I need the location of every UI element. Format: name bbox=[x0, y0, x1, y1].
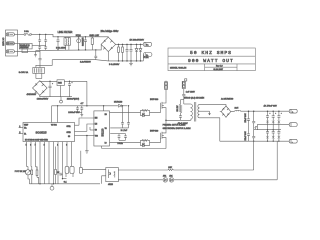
fuse F1 bbox=[24, 34, 32, 36]
ground circle control bbox=[50, 184, 54, 190]
svg-text:4X1N4007: 4X1N4007 bbox=[27, 94, 38, 96]
wire L bend to bridge bbox=[105, 36, 109, 39]
wire HO pin bbox=[110, 111, 141, 113]
svg-text:20a bridge 400v: 20a bridge 400v bbox=[101, 30, 120, 33]
wire PE bbox=[18, 50, 41, 52]
wire secondary bottom to bridge bbox=[200, 118, 220, 141]
wire HO to gate bbox=[150, 109, 161, 112]
IC U1 SG3525 bbox=[23, 123, 75, 142]
capacitor C10 bbox=[76, 106, 79, 113]
resistor R6 snubber bbox=[179, 100, 181, 115]
wire VCC drop SG pin13 bbox=[57, 106, 59, 123]
wire reg to rail drop bbox=[86, 81, 88, 106]
capacitor C6 bbox=[130, 44, 133, 61]
junction dots bus bbox=[118, 44, 142, 62]
svg-text:SD: SD bbox=[95, 130, 98, 132]
svg-text:50 KHZ SMPS: 50 KHZ SMPS bbox=[190, 50, 232, 56]
bus control ground bbox=[29, 183, 100, 185]
bus -42 bbox=[220, 140, 289, 142]
svg-text:HIN: HIN bbox=[95, 118, 98, 120]
capacitor bank column 1 bbox=[266, 111, 271, 141]
bridge rectifier BR2 bbox=[33, 81, 48, 96]
svg-text:VREF: VREF bbox=[24, 124, 28, 126]
SG3525 bottom pins bbox=[26, 142, 72, 147]
wire half bridge node bbox=[165, 111, 167, 131]
svg-text:FL2A: FL2A bbox=[144, 56, 150, 59]
resistor R8 bbox=[36, 167, 38, 184]
wire center tap hook bbox=[200, 111, 211, 115]
svg-text:2.2nF/250V: 2.2nF/250V bbox=[80, 62, 91, 64]
choke L1 common mode bbox=[64, 37, 71, 50]
svg-text:IN-: IN- bbox=[24, 134, 27, 136]
wire secondary top to bridge bbox=[200, 105, 227, 106]
wire fb lower bbox=[118, 179, 162, 181]
svg-text:HO: HO bbox=[105, 114, 108, 116]
diode D3 MUR120 bbox=[119, 104, 128, 107]
svg-text:ETD49 (2.8) 15CM2N: ETD49 (2.8) 15CM2N bbox=[184, 97, 205, 99]
diode D1 bbox=[135, 44, 138, 61]
svg-text:4N25: 4N25 bbox=[108, 184, 114, 186]
svg-text:6: 6 bbox=[30, 144, 31, 146]
capacitor CX3 bbox=[57, 37, 60, 50]
capacitor C16 1uF 400V bbox=[182, 89, 185, 104]
svg-text:01.04.2007: 01.04.2007 bbox=[214, 69, 223, 71]
svg-text:1: 1 bbox=[57, 144, 58, 146]
wire fb upper bbox=[118, 169, 168, 171]
diode D4 gate bbox=[141, 112, 150, 116]
svg-text:B 1.7uF: B 1.7uF bbox=[121, 130, 128, 132]
transistor Q4 bbox=[70, 147, 74, 178]
capacitor C19 bbox=[60, 173, 63, 176]
svg-text:OUTB: OUTB bbox=[67, 132, 71, 134]
wire PE chassis run bbox=[52, 59, 96, 61]
resistor R7 bbox=[31, 167, 33, 184]
IR2110 bottom pin bbox=[101, 146, 103, 149]
capacitor C15 snubber bbox=[179, 115, 182, 121]
wire pot bottom bbox=[28, 175, 29, 184]
SG3525 right pins bbox=[75, 125, 87, 135]
ground 0V bbox=[255, 126, 258, 128]
svg-text:8: 8 bbox=[66, 144, 67, 146]
wire COM return bbox=[102, 148, 166, 150]
bus B- drop bbox=[108, 52, 143, 61]
transformer T1 primary bbox=[191, 104, 193, 120]
svg-text:LO: LO bbox=[105, 142, 108, 144]
svg-text:9: 9 bbox=[44, 144, 45, 146]
resistor R3 bbox=[122, 44, 124, 61]
wire aux plus rail bbox=[40, 80, 57, 83]
wire to bridge bottom bbox=[96, 60, 109, 61]
wire fb lower rise bbox=[276, 141, 278, 180]
svg-text:SECONDER: 2X6TUR 1.4MM: SECONDER: 2X6TUR 1.4MM bbox=[163, 128, 191, 130]
svg-text:2X 100uF/400V: 2X 100uF/400V bbox=[130, 40, 145, 42]
connector OUT0 bbox=[289, 123, 297, 127]
svg-text:900 WATT OUT: 900 WATT OUT bbox=[188, 58, 234, 64]
svg-text:8-CSV 3A: 8-CSV 3A bbox=[19, 71, 29, 74]
ground aux circle bbox=[60, 97, 63, 103]
wire primary top bbox=[184, 103, 191, 105]
capacitor C12 bootstrap bbox=[121, 106, 124, 128]
wire VCC drop SG pin15 bbox=[51, 106, 53, 123]
junction rail bbox=[86, 105, 88, 107]
IR2110 top pin bbox=[103, 106, 105, 111]
transformer T1 core bbox=[194, 102, 196, 122]
pin PE plug bbox=[6, 50, 17, 53]
svg-text:220V AC: 220V AC bbox=[2, 37, 5, 46]
svg-text:IN+: IN+ bbox=[24, 128, 27, 130]
wire node to primary bbox=[166, 119, 191, 121]
svg-text:7815: 7815 bbox=[58, 83, 62, 85]
svg-text:Rev 1.0: Rev 1.0 bbox=[216, 66, 223, 68]
wire to opto bbox=[82, 168, 105, 170]
svg-text:5: 5 bbox=[26, 144, 27, 146]
capacitor C11 bbox=[80, 106, 83, 113]
connector J1 AC input box bbox=[6, 30, 18, 56]
wire cap bottom bus bbox=[36, 49, 97, 52]
wire pot top jog bbox=[27, 166, 29, 168]
connector OUT+ bbox=[289, 109, 297, 113]
capacitor C4 bbox=[84, 37, 87, 50]
relay K1 coil box bbox=[22, 49, 28, 53]
optocoupler U4 4N25 bbox=[106, 168, 119, 182]
wire snubber top bbox=[181, 99, 184, 101]
svg-text:MIHKEL VASLAN: MIHKEL VASLAN bbox=[170, 66, 187, 69]
pin N plug bbox=[6, 42, 17, 45]
svg-text:HQ RELAY 12: HQ RELAY 12 bbox=[20, 44, 30, 47]
wire +15 rail bbox=[52, 105, 118, 107]
diode D5 gate bbox=[141, 142, 150, 146]
wire N bbox=[18, 42, 20, 44]
wire aux minus rail bbox=[40, 95, 72, 96]
diode D2 bbox=[139, 44, 142, 61]
junction SD bbox=[86, 135, 88, 137]
wire aux primary bottom bbox=[36, 73, 42, 78]
capacitor C20 on feed bbox=[39, 50, 42, 67]
junction dots filter bbox=[57, 36, 96, 51]
svg-text:4R1: 4R1 bbox=[163, 176, 166, 178]
pin drop wires bbox=[27, 147, 63, 184]
ground caps mark bbox=[78, 113, 84, 117]
svg-text:1000uF/35V: 1000uF/35V bbox=[37, 98, 49, 100]
wire source lower drop bbox=[165, 140, 167, 148]
junction dots out bbox=[248, 110, 280, 112]
svg-text:10K: 10K bbox=[168, 167, 172, 169]
wire feed 2 staircase bbox=[36, 60, 52, 68]
resistor R2 bbox=[118, 44, 120, 61]
IC U2 IR2110 bbox=[94, 111, 110, 146]
svg-text:LINE FILTER: LINE FILTER bbox=[58, 31, 73, 34]
wire SD to driver bbox=[87, 135, 94, 137]
svg-text:7: 7 bbox=[35, 144, 36, 146]
potentiometer RV2 bbox=[25, 167, 30, 175]
svg-text:B 0.1u: B 0.1u bbox=[118, 143, 123, 145]
svg-text:4x MUR1560: 4x MUR1560 bbox=[221, 98, 234, 100]
capacitor CX2 bbox=[44, 34, 47, 50]
wire L after fuse bbox=[32, 34, 105, 36]
wire drain upper to supply bbox=[165, 89, 167, 99]
resistor R5 gate bbox=[141, 140, 150, 146]
varistor RV1 bbox=[77, 37, 81, 50]
zener ZD2 bbox=[169, 178, 174, 183]
bridge rectifier BR3 bbox=[220, 106, 231, 118]
wire VS caps bbox=[110, 127, 128, 129]
svg-text:VS: VS bbox=[105, 128, 107, 130]
transistor Q3 bbox=[65, 147, 69, 178]
capacitor CY1 bbox=[94, 50, 97, 60]
connector F2 faston bbox=[143, 53, 152, 61]
svg-text:4X 470uF 63V: 4X 470uF 63V bbox=[264, 106, 278, 108]
ground bus bbox=[129, 61, 133, 66]
capacitor C5 bbox=[126, 44, 129, 61]
svg-text:SG3525: SG3525 bbox=[36, 131, 47, 135]
bus +42 bbox=[241, 110, 290, 112]
resistor R4 gate bbox=[141, 110, 150, 116]
wire fb upper cont bbox=[173, 169, 253, 171]
capacitor C14b bbox=[119, 134, 127, 141]
wire OUTA to driver bbox=[79, 118, 94, 125]
svg-text:POT 5K 10T: POT 5K 10T bbox=[15, 171, 27, 173]
connector P1 bbox=[164, 81, 167, 90]
wire fb lower cont bbox=[174, 179, 277, 181]
svg-text:2200uF(16V): 2200uF(16V) bbox=[67, 98, 79, 100]
transistor Q1 IRFP460 upper bbox=[161, 100, 167, 111]
resistor R9 bbox=[55, 147, 60, 184]
pin L plug bbox=[6, 33, 17, 36]
svg-text:MUR120: MUR120 bbox=[114, 101, 123, 103]
transformer T2 aux bbox=[33, 68, 45, 74]
svg-text:4R1: 4R1 bbox=[169, 176, 172, 178]
transformer T1 secondary bbox=[198, 105, 200, 118]
capacitor C14 bbox=[110, 134, 125, 141]
svg-text:B 6A: B 6A bbox=[24, 30, 29, 33]
capacitor C13 bbox=[127, 106, 130, 128]
svg-text:1000uF 50V: 1000uF 50V bbox=[68, 112, 80, 114]
wire LO pin bbox=[110, 141, 141, 143]
bus B+ bbox=[116, 43, 144, 45]
svg-text:B 2A 250V: B 2A 250V bbox=[56, 47, 66, 50]
cap bank x marks bbox=[266, 121, 280, 139]
svg-text:PRIMER: 12TUR 1.2MM: PRIMER: 12TUR 1.2MM bbox=[163, 125, 186, 127]
svg-text:IRFP460: IRFP460 bbox=[150, 130, 159, 132]
wire 0V out bbox=[257, 125, 289, 130]
zener ZD1 bbox=[163, 178, 168, 183]
inductor L2 bbox=[231, 110, 241, 111]
rail 0V mid bbox=[254, 129, 281, 131]
svg-text:LIN: LIN bbox=[95, 124, 97, 126]
junction dots aux bbox=[49, 81, 70, 82]
svg-text:VC VCC: VC VCC bbox=[51, 124, 58, 126]
svg-text:IRFP460: IRFP460 bbox=[150, 99, 159, 101]
wire aux plus rail b bbox=[64, 80, 87, 82]
capacitor C8 bbox=[68, 81, 73, 96]
ground SD bbox=[85, 151, 89, 153]
svg-text:SMD 1.5K: SMD 1.5K bbox=[89, 35, 99, 37]
junction dots mid bottom rails bbox=[253, 129, 280, 142]
resistor R1 bbox=[91, 37, 93, 50]
title block frame bbox=[168, 48, 255, 71]
svg-text:1K: 1K bbox=[57, 172, 60, 174]
svg-text:B 0.1/630V: B 0.1/630V bbox=[109, 64, 120, 66]
svg-text:SD: SD bbox=[68, 136, 71, 138]
regulator U3 7815 bbox=[57, 80, 64, 97]
opto left pin 2 bbox=[102, 176, 106, 184]
transistor Q2 IRFP460 lower bbox=[161, 130, 167, 140]
svg-text:0.1: 0.1 bbox=[64, 182, 68, 184]
IR2110 left pin stubs bbox=[90, 127, 94, 130]
capacitor C7 bbox=[49, 81, 54, 96]
wire r8 top jog bbox=[36, 167, 38, 170]
capacitor C18 bbox=[252, 111, 255, 141]
svg-text:VSS: VSS bbox=[95, 136, 98, 138]
junction dots top wire bbox=[39, 34, 46, 35]
bridge rectifier BR1 bbox=[101, 37, 116, 51]
resistor R10 fb bbox=[168, 167, 174, 171]
svg-text:K5uF 63V: K5uF 63V bbox=[245, 131, 247, 141]
wire N to bridge bbox=[96, 44, 101, 50]
capacitor CX1 bbox=[38, 34, 41, 50]
capacitor bank column 2 bbox=[272, 111, 277, 141]
svg-text:RT CT DIS SS COMP GND SYNC: RT CT DIS SS COMP GND SYNC bbox=[25, 140, 49, 142]
relay K1 box bbox=[19, 43, 32, 49]
wire relay out bbox=[32, 44, 46, 46]
svg-text:1uF 400V: 1uF 400V bbox=[186, 92, 196, 94]
wire SD ground drop bbox=[86, 136, 88, 151]
svg-text:2uH: 2uH bbox=[235, 107, 239, 109]
wire OUTB to driver bbox=[87, 124, 94, 131]
SG3525 left pins bbox=[19, 126, 23, 134]
svg-text:K5uF 63V: K5uF 63V bbox=[245, 113, 247, 123]
transistor Q5 bbox=[79, 151, 82, 174]
connector P2 bbox=[182, 79, 187, 89]
capacitor C17 bbox=[247, 111, 250, 141]
svg-text:4.7: 4.7 bbox=[81, 103, 85, 105]
capacitor bank column 3 bbox=[277, 111, 282, 141]
wire fb upper rise bbox=[253, 141, 255, 170]
wire c19 bbox=[63, 178, 67, 180]
wire L to fuse bbox=[18, 33, 25, 35]
connector OUT- bbox=[289, 139, 297, 143]
ground PE bbox=[34, 51, 37, 56]
svg-text:56 1W: 56 1W bbox=[177, 105, 179, 111]
junction dots boot bbox=[122, 105, 129, 106]
wire r7 top jog bbox=[30, 166, 33, 168]
junction node bbox=[165, 120, 167, 122]
connector F1 faston bbox=[143, 42, 152, 46]
wire LO to gate bbox=[150, 139, 161, 143]
svg-text:OUTA: OUTA bbox=[67, 125, 71, 128]
